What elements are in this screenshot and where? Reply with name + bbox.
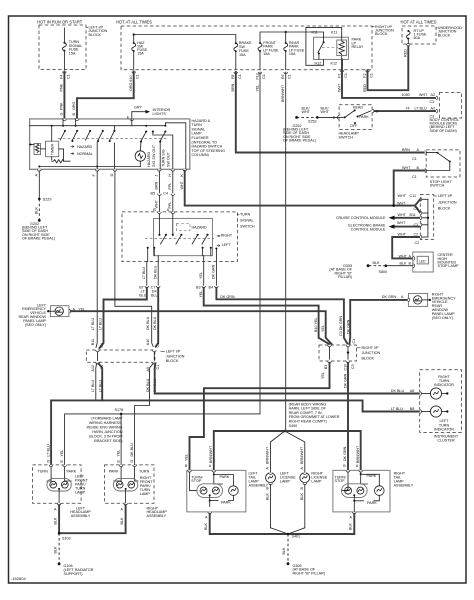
svg-text:BLOCK, 3 IN FROM: BLOCK, 3 IN FROM — [89, 434, 122, 438]
label E6 C1 BRN/WHT — [281, 74, 292, 102]
wire BLK right tail to S401 — [288, 514, 354, 534]
label RT I/P 1 FUSE 60A — [414, 29, 427, 40]
svg-text:OF BRAKE PEDAL): OF BRAKE PEDAL) — [22, 236, 55, 240]
left emergency vehicle lamp box — [50, 306, 69, 317]
svg-text:C11: C11 — [410, 194, 417, 198]
label RIGHT HEADLAMP ASSEMBLY — [147, 507, 168, 518]
wire DK GRN C10 down from right JB to right tail lamp — [347, 363, 349, 471]
wire BRN/WHT S400 to left tail lamp — [214, 431, 285, 470]
svg-text:LT BLU: LT BLU — [99, 318, 103, 330]
label YEL E (left front) — [60, 450, 64, 463]
svg-text:GRY: GRY — [134, 105, 142, 109]
svg-text:F2: F2 — [363, 73, 367, 77]
turn signal fuse 15A — [62, 28, 66, 70]
label BRAKE SW FUSE 15A — [239, 41, 252, 57]
label TURN SIGNAL SWITCH — [237, 212, 254, 228]
svg-text:J: J — [154, 175, 158, 177]
wire YEL front park fuse down to S178 — [121, 72, 260, 414]
resistor below timer — [52, 157, 70, 163]
svg-text:SWITCH: SWITCH — [430, 183, 445, 187]
wire YEL S178 to left front park — [65, 414, 122, 465]
svg-text:JUNCTION: JUNCTION — [362, 351, 381, 355]
svg-text:BLK: BLK — [34, 206, 38, 214]
wire BLK S401 to G306 dashed — [287, 534, 289, 564]
svg-text:G: G — [60, 113, 64, 116]
svg-text:RIGHT "B" PILLAR): RIGHT "B" PILLAR) — [293, 572, 325, 576]
label F2 C1 RED RED — [363, 49, 408, 92]
right front lamp connectors — [119, 465, 123, 467]
connector BCM A2 LT BLU — [436, 109, 438, 113]
wire DK BLU A9 thin below JB to right front lamp — [135, 364, 154, 465]
svg-text:WHT: WHT — [419, 93, 428, 97]
svg-text:K11: K11 — [312, 30, 318, 34]
wire WHT stop light switch to junction — [394, 171, 425, 206]
svg-text:NORMAL: NORMAL — [77, 152, 93, 156]
svg-text:LT BLU: LT BLU — [415, 106, 427, 110]
svg-text:D: D — [130, 460, 134, 463]
hazard mechanical dashed link — [58, 138, 168, 140]
svg-text:DK BLU: DK BLU — [153, 265, 157, 279]
wire WHT hazard pin K to left I/P junction block C11 — [185, 171, 420, 206]
right JB bottom connectors — [328, 361, 332, 363]
svg-text:ASSEMBLY: ASSEMBLY — [147, 514, 167, 518]
svg-text:SW OUT: SW OUT — [166, 152, 170, 167]
label RIGHT LEFT with ticks — [217, 234, 233, 248]
left front lamp out connector A — [57, 503, 61, 505]
label INSTRUMENT CLUSTER — [434, 435, 459, 443]
front park lp fuse 15A — [258, 42, 262, 70]
connector E6 C1 on BRN/WHT rear park — [284, 72, 288, 74]
label BRN/WHT A (right license) — [300, 446, 304, 469]
labels LT BLU DK BLU B7 C7 — [139, 265, 158, 297]
svg-text:STOP LAMP: STOP LAMP — [438, 264, 460, 268]
headlamp switch dashed box — [339, 105, 372, 130]
wire BLK CHMSL to S800 — [386, 265, 413, 267]
wire BRN brake fuse to stop light switch — [236, 72, 425, 153]
labels right JB bottom — [321, 364, 355, 388]
svg-text:C3: C3 — [430, 100, 435, 104]
svg-text:(SEO ONLY): (SEO ONLY) — [432, 316, 453, 320]
wire BLK S103 to G108 dashed — [58, 533, 60, 564]
svg-text:S103: S103 — [62, 536, 71, 540]
svg-text:(SEO ONLY): (SEO ONLY) — [25, 323, 46, 327]
svg-text:74: 74 — [406, 106, 410, 110]
svg-text:DK GRN: DK GRN — [344, 373, 348, 388]
left emergency lamp connector A — [69, 309, 71, 313]
svg-text:SIDE OF DASH): SIDE OF DASH) — [430, 129, 457, 133]
svg-text:A2: A2 — [431, 93, 436, 97]
svg-text:STOP: STOP — [191, 479, 202, 483]
svg-text:WHT: WHT — [337, 83, 341, 92]
label RIGHT LICENSE LAMP — [311, 471, 327, 483]
svg-text:PILLAR): PILLAR) — [338, 275, 352, 279]
wire RED underhood fuse to right I/P junction block — [368, 44, 409, 90]
connector C3 on junction block — [420, 211, 422, 215]
label LEFT I/P JUNCTION BLOCK — [86, 26, 107, 37]
wire WHT park relay to BCM 1050 — [342, 59, 436, 98]
hazard and turn signal flasher box — [30, 119, 190, 169]
svg-text:BLK: BLK — [53, 546, 57, 554]
ground G252 — [295, 116, 298, 119]
svg-text:LT BLU: LT BLU — [391, 407, 403, 411]
svg-text:C1: C1 — [288, 74, 292, 79]
wire DK BLU TS out to connector C7 — [157, 262, 159, 286]
wire BLK/WHT ground to S252 (dashed) — [297, 116, 318, 118]
label REAR PARK LP FUSE 15A — [289, 41, 305, 56]
svg-text:CLUSTER: CLUSTER — [437, 439, 455, 443]
wire YEL B3 to right JB — [204, 288, 329, 344]
svg-text:(FORWARD LAMP: (FORWARD LAMP — [91, 416, 123, 420]
right front lamp out connector A — [124, 503, 128, 505]
hazard box pin E (GRY out) — [130, 119, 134, 121]
right front lamp bulb — [113, 478, 137, 491]
svg-text:RED: RED — [403, 49, 407, 57]
rear park lp fuse 15A — [284, 32, 288, 70]
svg-text:TURN: TURN — [240, 212, 251, 216]
label LEFT I/P JUNCTION BLOCK — [161, 350, 185, 363]
svg-text:HOT AT ALL TIMES: HOT AT ALL TIMES — [401, 20, 437, 25]
right turn indicator lamp — [420, 392, 422, 396]
hazard internal top bus — [30, 125, 166, 127]
connector C1 on PNK at fuse box A — [63, 72, 67, 74]
svg-text:BRN/WHT: BRN/WHT — [266, 446, 270, 464]
label RIGHT TURN INDICATOR — [434, 375, 454, 387]
relay coil — [337, 37, 347, 59]
left front lamp leads — [47, 467, 51, 481]
label STOP LIGHT SWITCH — [430, 180, 453, 188]
label TURN/ STOP — [191, 475, 203, 483]
splice S178 — [120, 413, 123, 416]
svg-text:A2: A2 — [431, 106, 436, 110]
label DK GRN B (right tail) — [343, 446, 347, 467]
svg-text:COLUMN): COLUMN) — [192, 153, 209, 157]
svg-text:LAMP: LAMP — [140, 492, 151, 496]
rt I/P fuse 60A — [407, 30, 411, 44]
stop light switch dashed box — [426, 150, 460, 177]
svg-text:BRN/WHT: BRN/WHT — [281, 84, 285, 102]
label PARK LP RELAY — [352, 38, 364, 49]
svg-text:BRN: BRN — [231, 83, 235, 91]
svg-text:HOT IN RUN OR START: HOT IN RUN OR START — [37, 20, 83, 25]
svg-text:C10: C10 — [344, 364, 348, 371]
left emergency lamp circle — [55, 307, 63, 315]
svg-text:C1: C1 — [156, 343, 160, 348]
wire DK GRN B4 to right JB — [216, 288, 347, 344]
svg-text:15A: 15A — [263, 52, 270, 56]
left tail out connector A — [208, 512, 212, 514]
svg-text:C1: C1 — [100, 343, 104, 348]
label DK BLU A8 — [391, 389, 415, 393]
right tail internal wires — [342, 472, 348, 491]
wire WHT C3 arrow to EBCM — [395, 226, 421, 228]
labels PARK TURN — [109, 470, 150, 474]
label 74 LT BLU A2 C3 — [406, 106, 436, 118]
wire WHT B11 arrow to cruise control module — [395, 217, 421, 219]
svg-text:LEFT I/P: LEFT I/P — [166, 350, 181, 354]
label 1050 WHT A2 — [402, 93, 436, 104]
right JB top connectors — [328, 345, 332, 347]
hazard internal bottom bus — [39, 166, 140, 168]
right emergency lamp circle — [414, 296, 422, 304]
svg-text:PARK: PARK — [109, 470, 119, 474]
wire LT BLU TS out to connector B7 — [146, 262, 148, 286]
svg-text:C2: C2 — [414, 232, 419, 236]
svg-text:SIGNAL: SIGNAL — [240, 218, 254, 222]
svg-text:DK GRN: DK GRN — [343, 446, 347, 461]
bus wire haz/brake fuses — [134, 35, 236, 43]
svg-text:C1: C1 — [238, 74, 242, 79]
wire BLK right front lamp to S103 — [59, 505, 126, 533]
label G202 — [22, 222, 55, 240]
svg-text:H: H — [168, 174, 172, 177]
wire ORG haz fuse to hazard switch — [77, 72, 134, 119]
labels around left JB top — [91, 316, 160, 347]
svg-text:C3: C3 — [414, 223, 419, 227]
label LEFT TAIL LAMP ASSEMBLY — [249, 471, 269, 487]
hazard internal bus dots — [51, 125, 53, 127]
svg-text:K11: K11 — [331, 30, 337, 34]
svg-text:TIMER: TIMER — [51, 143, 55, 155]
junction block internal bus — [427, 199, 429, 237]
svg-text:LAMP: LAMP — [280, 480, 291, 484]
label FORWARD LAMP WIRING HARNESS — [86, 416, 123, 443]
svg-text:15A: 15A — [289, 52, 296, 56]
TS hazard dashed boxlet — [177, 224, 191, 231]
label REAR BODY WIRING HARN — [289, 402, 340, 428]
svg-text:LT BLU: LT BLU — [91, 380, 95, 392]
svg-text:YEL: YEL — [60, 450, 64, 457]
right tail internal ground junction — [353, 495, 355, 512]
right I/P junction block mid dashed box — [319, 345, 357, 361]
svg-text:BLK: BLK — [349, 522, 353, 530]
svg-text:F8: F8 — [231, 75, 235, 79]
svg-text:DK GRN: DK GRN — [382, 295, 397, 299]
wire BLK hazard pin A to S229 — [38, 171, 40, 199]
label RIGHT I/P JUNCTION BLOCK — [357, 346, 381, 360]
left license lamp — [266, 473, 276, 483]
label F4 C1 PNK PNK G — [60, 74, 71, 115]
label G305 — [329, 264, 352, 279]
label RIGHT TAIL LAMP ASSEMBLY — [394, 471, 414, 487]
svg-text:S800: S800 — [379, 270, 388, 274]
label LEFT TURN INDICATOR — [434, 419, 454, 431]
svg-text:BLOCK: BLOCK — [375, 32, 388, 36]
svg-text:HAZARD: HAZARD — [192, 225, 207, 229]
wire WHT to turn signal switch pin B — [158, 195, 160, 212]
label LEFT LICENSE LAMP — [280, 471, 296, 483]
left tail turn/stop bulb — [197, 484, 223, 498]
wire WHT C2 to CHMSL — [392, 237, 420, 258]
svg-text:YEL: YEL — [185, 454, 189, 461]
svg-text:A8: A8 — [410, 389, 415, 393]
wire YEL B3 down from right JB to left tail lamp — [190, 363, 330, 471]
svg-text:INDICATOR: INDICATOR — [434, 427, 454, 431]
label TURN/ STOP — [335, 475, 347, 483]
label LT BLU D (left front) — [46, 444, 50, 462]
svg-text:DK BLU: DK BLU — [391, 389, 405, 393]
svg-text:YEL: YEL — [116, 450, 120, 457]
headlamp switch G output connector — [372, 109, 374, 113]
svg-text:PNK: PNK — [60, 102, 64, 110]
splice S401 — [287, 533, 290, 536]
svg-text:S178: S178 — [115, 408, 124, 412]
svg-text:TURN SIG: TURN SIG — [161, 149, 165, 167]
svg-text:PARK: PARK — [220, 475, 230, 479]
svg-text:WHT: WHT — [398, 194, 407, 198]
TS internal drops — [147, 248, 149, 262]
splice S229 — [38, 198, 41, 201]
svg-text:YEL: YEL — [199, 272, 203, 279]
svg-text:ASSEMBLY: ASSEMBLY — [394, 484, 414, 488]
right emergency lamp box — [408, 293, 427, 306]
svg-text:S401: S401 — [292, 535, 301, 539]
svg-text:C1: C1 — [262, 74, 266, 79]
svg-text:BLU: BLU — [139, 293, 147, 297]
wire YEL left emergency lamp to right JB — [71, 311, 332, 344]
label RIGHT I/P JUNCTION BLOCK — [372, 25, 394, 36]
svg-text:DK BLU: DK BLU — [130, 443, 134, 457]
svg-text:15A: 15A — [69, 51, 76, 55]
brake sw fuse 15A — [234, 42, 238, 69]
svg-text:F12: F12 — [255, 73, 259, 79]
BCM dashed box — [439, 93, 461, 119]
wire BLK S229 to G202 dashed — [38, 199, 40, 221]
connector on underhood box for RED — [407, 44, 411, 46]
wire DK BLU C1 heavy below JB to cluster — [155, 364, 420, 394]
svg-text:BLK: BLK — [282, 547, 286, 555]
svg-text:WHT: WHT — [398, 232, 407, 236]
svg-text:ORG 610: ORG 610 — [129, 75, 133, 91]
svg-text:OFF: OFF — [350, 124, 358, 128]
label LEFT FRONT PARK/ TURN LAMP — [75, 475, 88, 495]
labels YEL DK GRN B3 B4 — [196, 264, 235, 299]
svg-text:WHT: WHT — [321, 110, 330, 114]
ground G306 — [287, 562, 290, 565]
svg-text:DK BLU: DK BLU — [153, 316, 157, 330]
svg-text:BLK: BLK — [204, 522, 208, 530]
left front park/turn lamp dashed box — [33, 465, 82, 503]
svg-text:OF BRAKE PEDAL): OF BRAKE PEDAL) — [283, 138, 316, 142]
svg-text:D: D — [110, 173, 114, 176]
label DK GRN A — [382, 295, 404, 299]
hazard internal routing right — [165, 123, 185, 170]
splice S800 — [385, 264, 388, 267]
wire BLK S800 to G305 dashed — [368, 265, 386, 267]
relay top feed wire — [306, 27, 342, 65]
label LEFT I/P JUNCTION BLOCK — [434, 194, 457, 210]
svg-text:ORG: ORG — [72, 101, 76, 110]
right tail connectors B A — [346, 470, 350, 472]
svg-text:BLK: BLK — [266, 492, 270, 500]
connector B5 C4 wire1 — [158, 194, 162, 196]
svg-text:C1: C1 — [370, 73, 374, 78]
svg-text:E6: E6 — [281, 74, 285, 79]
svg-text:BLOCK: BLOCK — [438, 207, 451, 211]
license lamp grounds converge to S401 — [271, 528, 289, 534]
ground G108 — [58, 563, 61, 566]
svg-text:C1: C1 — [412, 157, 417, 161]
right JB internals — [329, 347, 331, 359]
connector C11 on junction block — [420, 198, 422, 202]
left tail internal ground junction — [209, 495, 211, 506]
labels TURN PARK — [38, 470, 77, 474]
svg-text:HAZARD: HAZARD — [77, 145, 92, 149]
svg-text:ASSEMBLY: ASSEMBLY — [71, 514, 91, 518]
svg-text:S229: S229 — [43, 198, 52, 202]
wire BLK left license down — [270, 485, 272, 528]
svg-text:D: D — [46, 460, 50, 463]
label TURN SIGNAL FUSE 15A — [69, 40, 83, 55]
connector F12 C1 on YEL front park — [258, 72, 262, 74]
right tail turn/stop bulb — [342, 484, 368, 498]
svg-text:B11: B11 — [410, 213, 416, 217]
left front lamp bulb — [47, 478, 71, 491]
svg-text:JUNCTION: JUNCTION — [438, 200, 457, 204]
splice S103 — [58, 532, 61, 535]
label YEL B (left tail) — [185, 454, 189, 468]
left tail connectors B A — [188, 470, 192, 472]
svg-text:A12: A12 — [91, 365, 95, 372]
headlamp switch E connector — [337, 116, 339, 120]
left JB bottom connectors — [96, 362, 100, 364]
svg-text:RED: RED — [363, 84, 367, 92]
timer resistor small box — [34, 144, 41, 155]
label CENTER HIGH MOUNTED STOP LAMP — [438, 253, 460, 268]
label FRONT PARK LP FUSE 15A — [263, 41, 279, 56]
svg-text:SWITCH: SWITCH — [240, 224, 255, 228]
svg-text:S400: S400 — [289, 424, 298, 428]
svg-text:LED: LED — [419, 260, 426, 264]
svg-text:B3: B3 — [196, 285, 201, 289]
svg-text:SIG SW OUT: SIG SW OUT — [152, 144, 156, 167]
labels BLK/WHT BLK/WHT — [302, 107, 330, 115]
svg-text:HEAD: HEAD — [353, 105, 364, 109]
svg-text:YEL: YEL — [255, 85, 259, 92]
label RIGHT EMERGENCY VEHICLE REAR WINDOW PANEL LAMP — [432, 292, 456, 319]
wire BRN/WHT S400 to left license lamp — [271, 431, 285, 473]
wire DK BLU hazard pin D down to left JB A10 — [115, 171, 153, 347]
svg-text:C1: C1 — [156, 365, 160, 370]
left I/P junction block dashed (right side) — [420, 195, 433, 240]
park lp relay box — [314, 37, 349, 59]
haz sw fuse 15A — [132, 35, 136, 70]
connector C1 on ORG at fuse box B — [132, 72, 136, 74]
right license lamp — [300, 473, 310, 483]
svg-text:TURN: TURN — [38, 470, 49, 474]
left turn indicator lamp — [420, 410, 422, 414]
svg-text:WHT: WHT — [397, 221, 406, 225]
fuse box B: right I/P junction block (dashed) — [121, 26, 372, 70]
svg-text:WHT: WHT — [397, 201, 406, 205]
svg-text:BRN: BRN — [402, 148, 410, 152]
wire BRN/WHT S400 to right tail lamp — [285, 431, 361, 470]
splice S400 — [283, 430, 286, 433]
svg-text:WIRING HARNESS,: WIRING HARNESS, — [89, 421, 123, 425]
right tail lamp assembly box — [333, 470, 390, 512]
svg-text:WHT: WHT — [180, 180, 184, 189]
svg-text:JUNCTION: JUNCTION — [166, 354, 185, 358]
wire PPL hazard pin H down — [172, 171, 174, 193]
fuse box C: underhood junction block (dashed) — [402, 26, 436, 44]
stop light switch connector A — [425, 151, 427, 155]
wire YEL TS out to connector B3 — [203, 262, 205, 286]
fuse box A: left I/P junction block (dashed) — [39, 25, 86, 70]
CHMSL connectors A B — [413, 257, 415, 261]
svg-text:LT BLU: LT BLU — [142, 267, 146, 279]
svg-text:C3: C3 — [351, 364, 355, 369]
svg-text:BLK: BLK — [373, 261, 381, 265]
hazard box pin B — [75, 119, 79, 121]
